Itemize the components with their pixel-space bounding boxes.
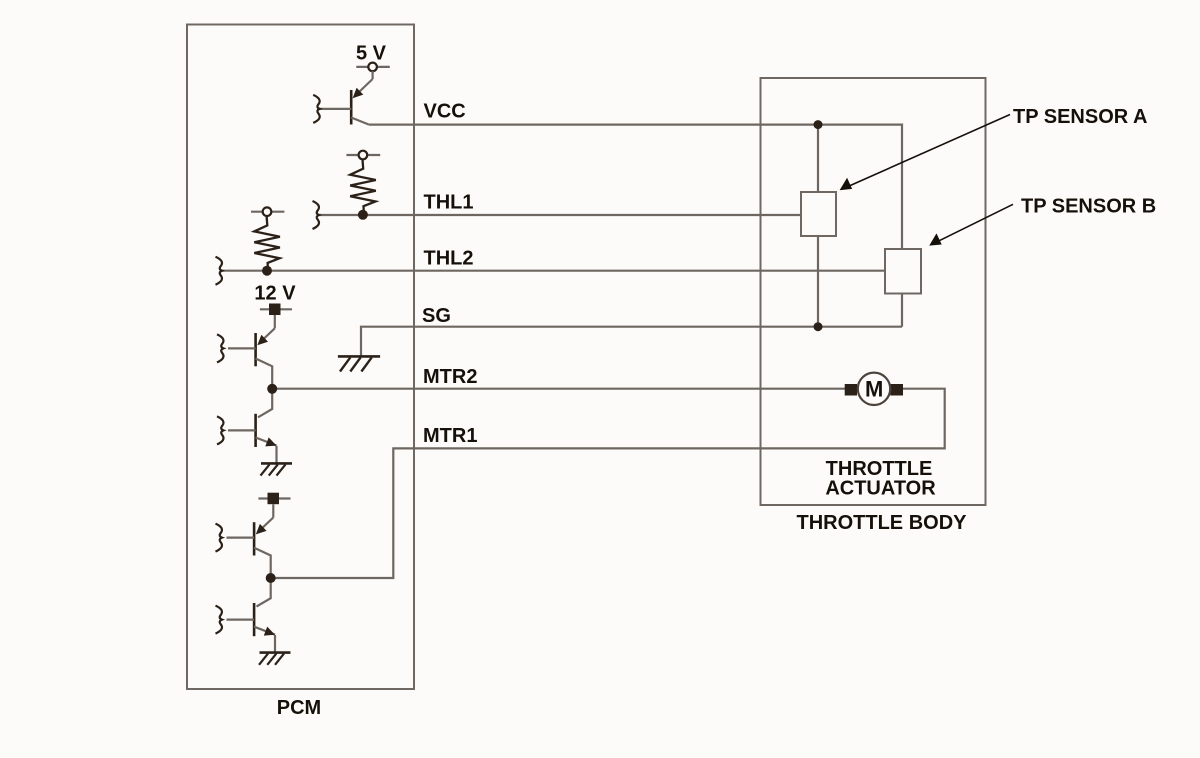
transistor Q1 (VCC buffer PNP) xyxy=(317,71,373,124)
squiggle Q5 base xyxy=(216,606,223,634)
wire THL1 xyxy=(317,214,801,216)
svg-text:MTR1: MTR1 xyxy=(423,425,477,447)
callout arrow TP sensor A xyxy=(840,115,1010,191)
ground (MTR2 driver) xyxy=(261,463,293,475)
svg-text:ACTUATOR: ACTUATOR xyxy=(825,478,936,500)
squiggle THL1 xyxy=(313,201,320,229)
node MTR2 junction xyxy=(267,384,277,394)
12V terminal square 2 xyxy=(258,493,290,505)
node VCC junction xyxy=(814,120,823,129)
svg-text:THL1: THL1 xyxy=(424,192,474,214)
squiggle Q2 base xyxy=(217,334,224,362)
transistor Q4 (PNP upper of MTR1 driver) xyxy=(227,504,274,578)
transistor Q2 (PNP upper of MTR2 driver) xyxy=(228,315,275,389)
wire sensor A vertical upper xyxy=(817,125,819,192)
wire VCC horizontal xyxy=(369,125,902,249)
squiggle Q1 base xyxy=(313,95,320,123)
svg-text:TP SENSOR A: TP SENSOR A xyxy=(1013,106,1147,128)
squiggle Q3 base xyxy=(217,416,224,444)
ground (SG) xyxy=(338,356,380,371)
node SG junction xyxy=(814,322,823,331)
ground (MTR1 driver) xyxy=(259,653,291,665)
svg-text:SG: SG xyxy=(422,305,451,327)
wire MTR1 loop xyxy=(271,389,945,578)
resistor R1 (THL1 pull-up) xyxy=(346,151,380,215)
TP sensor B box xyxy=(885,249,921,294)
PCM box xyxy=(187,25,414,690)
node THL2 junction xyxy=(262,266,272,276)
TP sensor A box xyxy=(801,192,836,236)
5V terminal xyxy=(356,63,390,72)
svg-text:M: M xyxy=(865,377,883,402)
svg-text:TP SENSOR B: TP SENSOR B xyxy=(1021,195,1156,217)
wire MTR2 xyxy=(272,388,845,390)
svg-text:12 V: 12 V xyxy=(254,283,296,305)
wire sensor B vertical lower xyxy=(901,294,903,327)
squiggle THL2 xyxy=(216,257,223,285)
svg-text:PCM: PCM xyxy=(277,697,321,719)
wire sensor A vertical lower xyxy=(817,236,819,327)
node MTR1 junction xyxy=(266,573,276,583)
motor M xyxy=(845,373,903,405)
callout arrow TP sensor B xyxy=(929,204,1013,245)
svg-text:MTR2: MTR2 xyxy=(423,366,477,388)
node THL1 junction xyxy=(358,210,368,220)
svg-text:VCC: VCC xyxy=(424,101,466,123)
wire SG xyxy=(361,327,902,357)
transistor Q5 (NPN lower of MTR1 driver) xyxy=(227,578,276,653)
svg-text:5 V: 5 V xyxy=(356,42,387,64)
transistor Q3 (NPN lower of MTR2 driver) xyxy=(228,389,277,464)
svg-text:THL2: THL2 xyxy=(424,248,474,270)
wire THL2 xyxy=(220,270,885,272)
THROTTLE BODY box xyxy=(761,78,986,505)
squiggle Q4 base xyxy=(216,524,223,552)
resistor R2 (THL2 pull-up) xyxy=(251,207,284,271)
12V terminal square xyxy=(260,304,292,316)
svg-text:THROTTLE BODY: THROTTLE BODY xyxy=(797,512,968,534)
